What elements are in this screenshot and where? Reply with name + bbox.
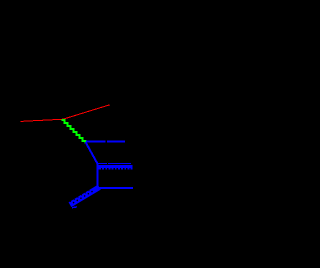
gluon coil horizontal: top tangent line right part (blue) (108, 163, 131, 165)
gluon coil horizontal: top tangent line (blue) (98, 163, 107, 165)
photon zigzag (green staircase) (62, 120, 86, 144)
outgoing quark line segment b (blue, top horizontal after gap) (107, 141, 125, 143)
outgoing quark line (blue, bottom horizontal) (98, 187, 133, 189)
outgoing quark line segment a (blue, top horizontal) (86, 141, 105, 143)
gluon coil end dash (blue) (72, 206, 77, 209)
quark line vertical (blue) (97, 164, 99, 188)
quark line diagonal (blue) (86, 142, 98, 164)
gluon coil horizontal: loop band (blue) (97, 165, 132, 170)
incoming electron line (red) (21, 105, 110, 122)
gluon coil diagonal to lower left (blue loop band) (68, 185, 100, 207)
